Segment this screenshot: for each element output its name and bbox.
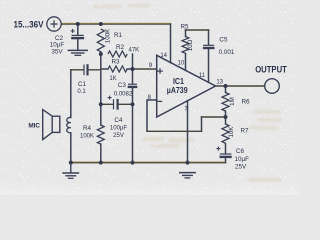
svg-text:10K: 10K: [228, 126, 235, 138]
node R6/R7 feedback: [224, 115, 228, 119]
svg-text:100K: 100K: [105, 28, 112, 43]
paper background: [0, 0, 300, 195]
wire R5 top lead: [185, 30, 187, 37]
ground (pin 7): [179, 173, 196, 178]
wire C2 tap down: [77, 24, 79, 35]
power terminal: [47, 17, 61, 31]
resistor R4: [97, 125, 104, 144]
svg-text:C6: C6: [236, 148, 245, 155]
svg-text:1K: 1K: [109, 76, 116, 82]
svg-text:C4: C4: [114, 117, 123, 124]
wire R5 bottom to pin 10: [185, 54, 187, 71]
wire coil bottom to rail: [70, 133, 72, 163]
svg-text:1M: 1M: [229, 97, 236, 106]
wire C4 branch horizontals: [101, 103, 133, 105]
resistor R5: [182, 37, 189, 54]
svg-text:10µF: 10µF: [235, 156, 250, 163]
ground (C2 local): [68, 50, 88, 55]
wire C5 bottom to pin 11: [208, 49, 210, 83]
wire R1 bottom to node A: [100, 52, 102, 54]
resistor R7: [222, 124, 229, 143]
svg-text:25V: 25V: [113, 133, 124, 139]
svg-text:OUTPUT: OUTPUT: [255, 64, 287, 75]
svg-text:R1: R1: [114, 32, 123, 39]
ground rail highlight: [72, 161, 226, 163]
node A R1/R2: [99, 52, 103, 56]
op-amp plus input symbol: [157, 68, 163, 74]
capacitor C1: [84, 64, 88, 75]
node output/R6: [224, 84, 228, 88]
supply rail highlight: [62, 22, 170, 24]
svg-text:10: 10: [178, 61, 185, 67]
svg-text:35V: 35V: [51, 48, 63, 55]
wire C5 top lead: [208, 30, 210, 45]
svg-text:R3: R3: [111, 59, 120, 66]
capacitor C5: [203, 45, 215, 48]
wire junction to pin 9: [133, 68, 157, 70]
node R3/C3/R2 junction: [131, 67, 135, 71]
svg-text:R7: R7: [241, 128, 250, 135]
resistor R2: [108, 51, 127, 57]
svg-text:14: 14: [160, 53, 167, 59]
svg-text:C3: C3: [118, 82, 127, 89]
svg-text:15...36V: 15...36V: [13, 19, 43, 30]
wire pin14 drop: [170, 24, 172, 63]
capacitor C3: [128, 84, 138, 87]
wire pin 7 drop to rail: [187, 101, 189, 163]
wire C1 branch horizontals: [71, 69, 101, 71]
svg-text:R2: R2: [116, 44, 125, 51]
node rail C3: [131, 161, 135, 165]
svg-text:R5: R5: [181, 23, 190, 30]
wire C1 left end down to coil: [70, 70, 72, 118]
ground (mic/coil): [62, 163, 79, 179]
capacitor C4: [108, 96, 118, 110]
svg-text:13: 13: [216, 80, 223, 86]
op-amp minus input symbol: [157, 100, 162, 102]
svg-text:MIC: MIC: [28, 123, 40, 130]
wire R3 lead stubs: [101, 68, 133, 70]
capacitor C2: [71, 29, 85, 38]
resistor R6: [222, 93, 229, 111]
svg-text:C1: C1: [78, 81, 87, 88]
faint print-through ghosts: [92, 4, 282, 182]
node supply/R1: [99, 22, 103, 26]
wire R6 leads: [225, 86, 227, 117]
wire R5-C5 top connector: [186, 29, 209, 31]
pin numbers: [148, 53, 224, 113]
wire C2 to ground: [77, 39, 79, 50]
svg-text:100µF: 100µF: [110, 126, 127, 132]
node C4/C3 column: [131, 102, 135, 106]
svg-text:0.1: 0.1: [77, 89, 86, 95]
wire pin 8 stub and feedback verticals: [147, 100, 202, 131]
resistor R1: [97, 29, 104, 52]
capacitor C6: [216, 147, 231, 157]
wire node A down to R3 node and R4 node: [100, 54, 102, 125]
node R4/C4: [99, 102, 103, 106]
wire R2 right bend down: [132, 54, 134, 69]
svg-text:0.0082: 0.0082: [114, 91, 133, 97]
svg-text:25V: 25V: [235, 164, 247, 171]
svg-text:0.001: 0.001: [219, 49, 235, 56]
svg-text:100K: 100K: [80, 134, 94, 140]
node supply/C2: [76, 22, 80, 26]
svg-text:R6: R6: [242, 99, 251, 106]
output terminal: [265, 79, 280, 94]
wire R4 bottom to rail: [100, 144, 102, 163]
microphone symbol: [43, 110, 60, 140]
wire R7 leads: [225, 117, 227, 154]
wire output from apex: [216, 85, 265, 87]
wire top supply rail: [61, 23, 170, 25]
resistor R3: [108, 66, 127, 72]
svg-text:C5: C5: [219, 36, 228, 43]
wire feedback horizontals: [147, 117, 226, 131]
svg-text:10Ω: 10Ω: [187, 39, 194, 51]
svg-text:µA739: µA739: [167, 86, 188, 95]
node rail R4: [99, 161, 103, 165]
wire C6 bottom lead: [225, 158, 227, 163]
svg-text:R4: R4: [83, 125, 92, 132]
svg-text:11: 11: [199, 73, 206, 79]
node rail pin7: [186, 161, 190, 165]
ground rail: [71, 162, 226, 164]
op-amp U1 triangle: [157, 55, 216, 117]
node rail coil: [69, 161, 73, 165]
svg-text:47K: 47K: [129, 47, 140, 53]
mic transformer coil L1: [67, 117, 71, 132]
wire C3 vertical: junction down through cap to rail: [132, 69, 134, 163]
